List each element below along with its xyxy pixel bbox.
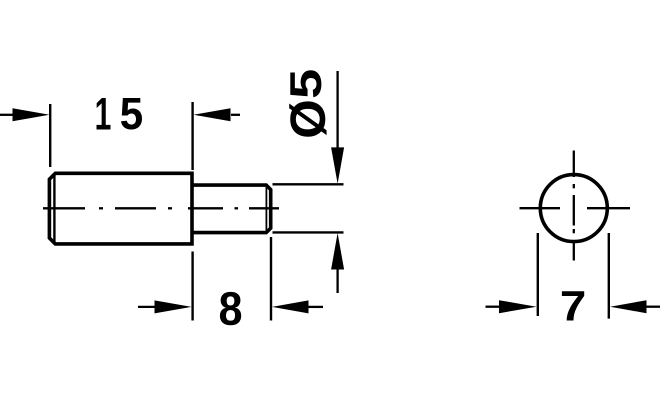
dimension 7: left extension line bbox=[537, 233, 539, 316]
end view horizontal centerline bbox=[520, 207, 631, 209]
dimension 8: right arrow bbox=[307, 306, 323, 308]
pin body outline (side view, 15mm cylinder) bbox=[49, 173, 192, 244]
dimension 7: value label bbox=[562, 291, 584, 320]
dimension diameter 5: top extension line bbox=[273, 183, 344, 185]
dimension 15: left arrow bbox=[0, 114, 14, 116]
dimension 8: right extension line bbox=[270, 237, 272, 321]
dimension diameter 5: value label (rotated) bbox=[289, 70, 326, 136]
dimension 15: left extension line bbox=[49, 104, 51, 167]
dimension 15: value label bbox=[97, 98, 143, 130]
dimension 15: right extension line bbox=[191, 102, 193, 170]
end view vertical centerline bbox=[573, 151, 575, 261]
dimension 7: left arrow bbox=[486, 306, 501, 308]
dimension 8: value label bbox=[220, 292, 241, 325]
body left chamfer edge line bbox=[53, 175, 55, 243]
pin tip chamfer edge line bbox=[265, 187, 267, 232]
dimension diameter 5: lower up arrow with tail bbox=[331, 233, 344, 270]
pin tip outline (side view, 8mm x d5 stud) bbox=[192, 185, 271, 233]
dimension 15: right arrow bbox=[231, 114, 240, 116]
dimension 7: right arrow bbox=[645, 306, 660, 308]
dimension 8: left extension line bbox=[191, 252, 193, 321]
end view circle (7mm diameter) bbox=[540, 175, 607, 242]
dimension 8: left arrow bbox=[138, 306, 156, 308]
centerline (side view axis, dash-dot) bbox=[43, 207, 279, 209]
dimension diameter 5: bottom extension line bbox=[273, 231, 344, 233]
dimension 7: right extension line bbox=[608, 233, 610, 319]
dimension diameter 5: upper leader line with down arrow bbox=[336, 71, 338, 150]
